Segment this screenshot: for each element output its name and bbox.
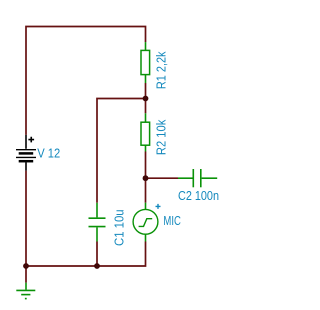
node ground junction <box>23 263 29 269</box>
svg-text:R2 10k: R2 10k <box>153 119 168 155</box>
wire R1 bottom to node A <box>145 83 147 99</box>
wire C1 bottom to bottom rail <box>96 242 98 267</box>
battery V1 <box>16 135 36 171</box>
svg-text:MIC: MIC <box>163 213 181 228</box>
wire top rail from battery plus up, across, and down to R1 <box>26 27 146 135</box>
node B junction <box>143 175 149 181</box>
ground <box>16 283 35 299</box>
wire node A to R2 top <box>145 99 147 114</box>
wire node B right to C2 <box>146 177 179 179</box>
resistor R2 <box>141 113 150 151</box>
node A junction <box>143 96 149 102</box>
wire bottom-left node down to ground <box>25 266 27 283</box>
wire bottom rail and up to MIC bottom <box>26 242 146 267</box>
node C1-bottom junction <box>94 263 100 269</box>
resistor R1 <box>141 42 150 83</box>
capacitor C2 <box>178 169 217 187</box>
wire C1 top up and right to node A <box>97 99 146 203</box>
svg-text:C2 100n: C2 100n <box>178 188 219 203</box>
svg-text:R1 2,2k: R1 2,2k <box>153 51 168 89</box>
svg-text:V 12: V 12 <box>37 146 60 161</box>
microphone MIC <box>133 203 160 242</box>
wire node B to MIC top <box>145 178 147 203</box>
wire battery minus down to bottom-left node <box>25 171 27 266</box>
svg-text:C1 10u: C1 10u <box>112 209 127 246</box>
wire R2 bottom to node B <box>145 152 147 179</box>
capacitor C1 <box>89 203 106 242</box>
